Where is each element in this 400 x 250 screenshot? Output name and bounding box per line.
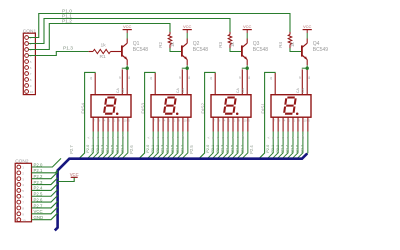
segment pin 1 of DIS1 bbox=[292, 117, 294, 131]
wire segment net P2.4 of DIS1 bbox=[287, 132, 293, 159]
wire net P1.0 bbox=[29, 14, 290, 38]
wire CA bridge DIS1 bbox=[302, 67, 308, 69]
digit select pin of DIS2 bbox=[214, 73, 216, 95]
svg-text:DIS4: DIS4 bbox=[80, 103, 86, 114]
svg-text:F: F bbox=[171, 137, 175, 139]
segment pin 1 of DIS3 bbox=[172, 117, 174, 131]
segment pin 10 of DIS3 bbox=[182, 117, 184, 131]
wire segment net P2.4 of DIS4 bbox=[107, 132, 113, 159]
svg-text:P2.7: P2.7 bbox=[121, 145, 125, 153]
svg-text:CON2: CON2 bbox=[15, 158, 29, 164]
svg-text:VCC: VCC bbox=[34, 209, 43, 214]
svg-text:DP: DP bbox=[181, 135, 185, 139]
wire segment net P2.2 of DIS1 bbox=[277, 132, 283, 159]
svg-text:A: A bbox=[146, 137, 150, 139]
svg-text:VCC: VCC bbox=[303, 24, 312, 29]
decimal point of DIS4 bbox=[116, 112, 119, 115]
connector CON2 bbox=[15, 163, 31, 222]
wire net P2.3 from CON2 bbox=[32, 178, 58, 185]
svg-text:P2.5: P2.5 bbox=[291, 145, 295, 153]
wire segment net P2.2 of DIS2 bbox=[217, 132, 223, 159]
svg-text:6: 6 bbox=[150, 76, 152, 80]
svg-text:DP: DP bbox=[121, 135, 125, 139]
transistor Q4 BC549 bbox=[306, 39, 308, 44]
svg-text:CON1: CON1 bbox=[23, 28, 37, 34]
svg-text:9: 9 bbox=[119, 76, 121, 80]
segment pin 1 of DIS2 bbox=[232, 117, 234, 131]
wire net P1.1 bbox=[29, 19, 230, 44]
wire base Q2 bbox=[170, 48, 182, 52]
svg-text:E: E bbox=[106, 137, 110, 139]
wire segment net P2.1 of DIS3 bbox=[152, 132, 158, 159]
svg-text:P2.0: P2.0 bbox=[206, 145, 210, 153]
svg-text:VCC: VCC bbox=[183, 24, 192, 29]
CON1 pin circles bbox=[25, 36, 29, 40]
svg-text:P2.7: P2.7 bbox=[69, 145, 74, 154]
wire net P2.1 from CON2 bbox=[32, 170, 58, 172]
svg-text:DP: DP bbox=[301, 135, 305, 139]
wire segment net P2.1 of DIS2 bbox=[212, 132, 218, 159]
junction dot DIS2 CA bbox=[246, 67, 249, 70]
wire segment net P2.7 of DIS2 bbox=[242, 132, 248, 159]
svg-text:E: E bbox=[226, 137, 230, 139]
wire collector Q4 bbox=[306, 33, 308, 39]
7-segment display DIS3 bbox=[151, 95, 191, 118]
svg-text:P2.4: P2.4 bbox=[166, 145, 170, 153]
digit 8 of DIS1 bbox=[284, 98, 296, 114]
digit 8 of DIS4 bbox=[104, 98, 116, 114]
wire net P2.0 from CON2 bbox=[32, 158, 62, 167]
digit select pin of DIS1 bbox=[274, 73, 276, 95]
svg-text:P2.1: P2.1 bbox=[271, 145, 275, 153]
7-segment display DIS4 bbox=[91, 95, 131, 118]
svg-text:CA: CA bbox=[241, 88, 245, 93]
svg-text:P2.5: P2.5 bbox=[34, 192, 43, 197]
bus B1 bbox=[55, 154, 307, 231]
segment pin 5 of DIS3 bbox=[187, 117, 189, 131]
CA pins of DIS1 bbox=[301, 69, 303, 94]
svg-text:P2.0: P2.0 bbox=[86, 145, 90, 153]
7-segment display DIS2 bbox=[211, 95, 251, 118]
wire emitter Q2 bbox=[186, 65, 188, 68]
svg-text:P2.4: P2.4 bbox=[249, 145, 254, 154]
segment pin 7 of DIS3 bbox=[152, 117, 154, 131]
segment pin 10 of DIS2 bbox=[242, 117, 244, 131]
wire segment net P2.5 of DIS2 bbox=[232, 132, 238, 159]
svg-text:CA: CA bbox=[121, 88, 125, 93]
segment pin 5 of DIS1 bbox=[307, 117, 309, 131]
wire segment net P2.4 of DIS3 bbox=[167, 132, 173, 159]
svg-text:DP: DP bbox=[241, 135, 245, 139]
wire segment net P2.3 of DIS1 bbox=[282, 132, 288, 159]
resistor R4 1k bbox=[289, 32, 291, 35]
svg-text:E: E bbox=[286, 137, 290, 139]
segment pin 4 of DIS3 bbox=[162, 117, 164, 131]
svg-text:P2.6: P2.6 bbox=[296, 145, 300, 153]
svg-text:P1.2: P1.2 bbox=[62, 19, 72, 25]
svg-text:P2.4: P2.4 bbox=[286, 145, 290, 153]
svg-text:P2.2: P2.2 bbox=[216, 145, 220, 153]
svg-text:P2.4: P2.4 bbox=[106, 145, 110, 153]
svg-text:R1: R1 bbox=[100, 54, 107, 60]
transistor Q2 BC548 bbox=[186, 39, 188, 44]
svg-text:P2.1: P2.1 bbox=[34, 168, 43, 173]
svg-text:P2.2: P2.2 bbox=[276, 145, 280, 153]
svg-text:P2.2: P2.2 bbox=[156, 145, 160, 153]
wire segment net P2.3 of DIS3 bbox=[162, 132, 168, 159]
svg-text:10: 10 bbox=[304, 119, 308, 123]
wire net P2.5 from CON2 bbox=[32, 190, 58, 197]
wire segment net P2.6 of DIS3 bbox=[177, 132, 183, 159]
VCC supply Q4 bbox=[303, 29, 312, 31]
svg-text:GND: GND bbox=[34, 215, 44, 220]
svg-text:P2.0: P2.0 bbox=[266, 145, 270, 153]
wire segment net P2.7 of DIS4 bbox=[122, 132, 128, 159]
segment pin 5 of DIS2 bbox=[247, 117, 249, 131]
svg-text:P2.3: P2.3 bbox=[101, 145, 105, 153]
wire CA bridge DIS3 bbox=[182, 67, 188, 69]
svg-text:BC548: BC548 bbox=[193, 47, 209, 53]
segment pin 10 of DIS4 bbox=[122, 117, 124, 131]
svg-text:P2.6: P2.6 bbox=[129, 145, 134, 154]
svg-text:8: 8 bbox=[128, 76, 130, 80]
wire segment net P2.2 of DIS3 bbox=[157, 132, 163, 159]
svg-text:F: F bbox=[231, 137, 235, 139]
wire segment net P2.4 of DIS2 bbox=[227, 132, 233, 159]
svg-text:B: B bbox=[271, 137, 275, 139]
svg-text:CA: CA bbox=[176, 88, 180, 93]
svg-text:P2.7: P2.7 bbox=[34, 203, 43, 208]
segment pin 7 of DIS4 bbox=[92, 117, 94, 131]
transistor Q3 BC548 bbox=[246, 39, 248, 44]
segment pin 9 of DIS2 bbox=[237, 117, 239, 131]
svg-text:A: A bbox=[266, 137, 270, 139]
svg-text:10: 10 bbox=[124, 119, 128, 123]
svg-text:CA: CA bbox=[296, 88, 300, 93]
svg-text:R3: R3 bbox=[218, 41, 223, 47]
connector CON1 bbox=[23, 33, 35, 94]
svg-text:9: 9 bbox=[239, 76, 241, 80]
svg-text:Q2: Q2 bbox=[193, 41, 200, 47]
CON2 pin circles bbox=[17, 165, 21, 169]
svg-text:A: A bbox=[206, 137, 210, 139]
resistor R2 1k bbox=[169, 32, 171, 35]
svg-text:P2.0: P2.0 bbox=[146, 145, 150, 153]
svg-text:8: 8 bbox=[248, 76, 250, 80]
wire segment net P2.0 of DIS4 bbox=[87, 132, 93, 159]
wire segment net P2.5 of DIS3 bbox=[172, 132, 178, 159]
wire segment net P2.6 of DIS2 bbox=[237, 132, 243, 159]
wire digit select DIS3 bbox=[139, 72, 156, 158]
wire segment net P2.7 of DIS1 bbox=[302, 132, 308, 159]
svg-text:VCC: VCC bbox=[70, 172, 79, 177]
svg-text:P2.4: P2.4 bbox=[226, 145, 230, 153]
segment pin 4 of DIS2 bbox=[222, 117, 224, 131]
svg-text:P2.4: P2.4 bbox=[34, 186, 43, 191]
svg-text:P2.5: P2.5 bbox=[231, 145, 235, 153]
wire net GND from CON2 bbox=[32, 213, 58, 220]
wire segment net P2.1 of DIS4 bbox=[92, 132, 98, 159]
svg-text:6: 6 bbox=[270, 76, 272, 80]
svg-text:VCC: VCC bbox=[123, 24, 132, 29]
digit 8 of DIS3 bbox=[164, 98, 176, 114]
wire digit select DIS4 bbox=[79, 72, 96, 158]
decimal point of DIS1 bbox=[296, 112, 299, 115]
CA pins of DIS4 bbox=[121, 69, 123, 94]
svg-text:VCC: VCC bbox=[243, 24, 252, 29]
wire digit select DIS2 bbox=[199, 72, 216, 158]
svg-text:P2.7: P2.7 bbox=[241, 145, 245, 153]
wire segment net P2.3 of DIS4 bbox=[102, 132, 108, 159]
wire net VCC from CON2 bbox=[32, 207, 58, 214]
wire segment net P2.3 of DIS2 bbox=[222, 132, 228, 159]
VCC supply Q3 bbox=[243, 29, 252, 31]
wire net P2.2 from CON2 bbox=[32, 172, 58, 179]
svg-text:10: 10 bbox=[22, 218, 26, 222]
svg-text:P2.5: P2.5 bbox=[171, 145, 175, 153]
svg-text:CA: CA bbox=[301, 88, 305, 93]
VCC supply Q2 bbox=[183, 29, 192, 31]
segment pin 2 of DIS4 bbox=[107, 117, 109, 131]
segment pin 9 of DIS4 bbox=[117, 117, 119, 131]
svg-text:CA: CA bbox=[181, 88, 185, 93]
svg-text:Q1: Q1 bbox=[133, 41, 140, 47]
svg-text:P2.2: P2.2 bbox=[34, 174, 43, 179]
svg-text:Q4: Q4 bbox=[313, 41, 320, 47]
digit select pin of DIS3 bbox=[154, 73, 156, 95]
svg-text:CA: CA bbox=[116, 88, 120, 93]
resistor R3 1k bbox=[229, 32, 231, 35]
svg-text:8: 8 bbox=[308, 76, 310, 80]
junction dot DIS4 CA bbox=[126, 67, 129, 70]
svg-text:P2.3: P2.3 bbox=[221, 145, 225, 153]
digit 8 of DIS2 bbox=[224, 98, 236, 114]
wire segment net P2.6 of DIS1 bbox=[297, 132, 303, 159]
svg-text:P2.5: P2.5 bbox=[111, 145, 115, 153]
svg-text:P2.0: P2.0 bbox=[34, 162, 43, 167]
segment pin 10 of DIS1 bbox=[302, 117, 304, 131]
svg-text:10: 10 bbox=[184, 119, 188, 123]
wire base Q3 bbox=[230, 48, 242, 52]
svg-text:CA: CA bbox=[236, 88, 240, 93]
wire segment net P2.2 of DIS4 bbox=[97, 132, 103, 159]
segment pin 9 of DIS1 bbox=[297, 117, 299, 131]
svg-text:P1.3: P1.3 bbox=[63, 46, 73, 52]
segment pin 6 of DIS4 bbox=[97, 117, 99, 131]
svg-text:P2.3: P2.3 bbox=[161, 145, 165, 153]
wire CA bridge DIS4 bbox=[122, 67, 128, 69]
segment pin 5 of DIS4 bbox=[127, 117, 129, 131]
VCC supply Q1 bbox=[123, 29, 132, 31]
junction dot DIS1 CA bbox=[306, 67, 309, 70]
wire collector Q3 bbox=[246, 33, 248, 39]
svg-text:10: 10 bbox=[30, 90, 34, 94]
svg-text:DIS1: DIS1 bbox=[260, 103, 266, 114]
wire emitter Q3 bbox=[246, 65, 248, 68]
wire segment net P2.0 of DIS1 bbox=[267, 132, 273, 159]
svg-text:A: A bbox=[86, 137, 90, 139]
VCC supply symbol bottom bbox=[71, 176, 78, 178]
resistor R1 1k bbox=[89, 51, 93, 53]
wire segment net P2.1 of DIS1 bbox=[272, 132, 278, 159]
svg-text:P2.7: P2.7 bbox=[181, 145, 185, 153]
svg-text:BC549: BC549 bbox=[313, 47, 329, 53]
svg-text:P2.5: P2.5 bbox=[189, 145, 194, 154]
svg-text:BC548: BC548 bbox=[133, 47, 149, 53]
svg-text:P2.3: P2.3 bbox=[281, 145, 285, 153]
svg-text:6: 6 bbox=[210, 76, 212, 80]
segment pin 7 of DIS1 bbox=[272, 117, 274, 131]
segment pin 9 of DIS3 bbox=[177, 117, 179, 131]
segment pin 6 of DIS2 bbox=[217, 117, 219, 131]
svg-text:E: E bbox=[166, 137, 170, 139]
wire net P1.2 bbox=[29, 24, 170, 50]
svg-text:B: B bbox=[151, 137, 155, 139]
segment pin 2 of DIS1 bbox=[287, 117, 289, 131]
svg-text:DIS2: DIS2 bbox=[200, 103, 206, 114]
svg-text:B: B bbox=[211, 137, 215, 139]
svg-text:1k: 1k bbox=[230, 41, 235, 47]
wire segment net P2.0 of DIS3 bbox=[147, 132, 153, 159]
segment pin 6 of DIS3 bbox=[157, 117, 159, 131]
wire collector Q2 bbox=[186, 33, 188, 39]
decimal point of DIS2 bbox=[236, 112, 239, 115]
svg-text:B: B bbox=[91, 137, 95, 139]
svg-text:F: F bbox=[291, 137, 295, 139]
svg-text:R4: R4 bbox=[278, 41, 283, 47]
svg-text:P2.6: P2.6 bbox=[116, 145, 120, 153]
wire emitter Q1 bbox=[126, 65, 128, 68]
wire base Q4 bbox=[290, 48, 302, 52]
svg-text:R2: R2 bbox=[158, 41, 163, 47]
wire digit select DIS1 bbox=[259, 72, 276, 158]
svg-text:Q3: Q3 bbox=[253, 41, 260, 47]
segment pin 6 of DIS1 bbox=[277, 117, 279, 131]
wire net P2.4 from CON2 bbox=[32, 184, 58, 191]
wire segment net P2.6 of DIS4 bbox=[117, 132, 123, 159]
svg-text:P2.1: P2.1 bbox=[91, 145, 95, 153]
svg-text:9: 9 bbox=[179, 76, 181, 80]
junction dot DIS3 CA bbox=[186, 67, 189, 70]
svg-text:1k: 1k bbox=[290, 41, 295, 47]
svg-text:9: 9 bbox=[299, 76, 301, 80]
wire to VCC symbol bbox=[58, 177, 75, 181]
svg-text:1k: 1k bbox=[101, 42, 107, 48]
7-segment display DIS1 bbox=[271, 95, 311, 118]
decimal point of DIS3 bbox=[176, 112, 179, 115]
wire CA bridge DIS2 bbox=[242, 67, 248, 69]
wire segment net P2.7 of DIS3 bbox=[182, 132, 188, 159]
svg-text:10: 10 bbox=[244, 119, 248, 123]
wire net P1.3 bbox=[29, 52, 89, 56]
wire segment net P2.5 of DIS4 bbox=[112, 132, 118, 159]
segment pin 2 of DIS3 bbox=[167, 117, 169, 131]
svg-text:6: 6 bbox=[90, 76, 92, 80]
svg-text:P2.6: P2.6 bbox=[176, 145, 180, 153]
wire segment net P2.5 of DIS1 bbox=[292, 132, 298, 159]
wire segment net P2.0 of DIS2 bbox=[207, 132, 213, 159]
wire net P2.7 from CON2 bbox=[32, 201, 58, 208]
transistor Q1 BC548 bbox=[126, 39, 128, 44]
segment pin 4 of DIS4 bbox=[102, 117, 104, 131]
svg-text:BC548: BC548 bbox=[253, 47, 269, 53]
svg-text:P2.6: P2.6 bbox=[34, 197, 43, 202]
svg-text:P2.1: P2.1 bbox=[211, 145, 215, 153]
svg-text:8: 8 bbox=[188, 76, 190, 80]
svg-text:P2.1: P2.1 bbox=[151, 145, 155, 153]
segment pin 7 of DIS2 bbox=[212, 117, 214, 131]
wire collector Q1 bbox=[126, 33, 128, 39]
svg-text:1k: 1k bbox=[170, 41, 175, 47]
svg-text:F: F bbox=[111, 137, 115, 139]
segment pin 2 of DIS2 bbox=[227, 117, 229, 131]
svg-text:P2.3: P2.3 bbox=[34, 180, 43, 185]
wire emitter Q4 bbox=[306, 65, 308, 68]
svg-text:DIS3: DIS3 bbox=[140, 103, 146, 114]
segment pin 4 of DIS1 bbox=[282, 117, 284, 131]
digit select pin of DIS4 bbox=[94, 73, 96, 95]
svg-text:P2.6: P2.6 bbox=[236, 145, 240, 153]
svg-text:P2.7: P2.7 bbox=[301, 145, 305, 153]
CA pins of DIS2 bbox=[241, 69, 243, 94]
svg-text:P2.2: P2.2 bbox=[96, 145, 100, 153]
segment pin 1 of DIS4 bbox=[112, 117, 114, 131]
wire net P2.6 from CON2 bbox=[32, 196, 58, 203]
CA pins of DIS3 bbox=[181, 69, 183, 94]
